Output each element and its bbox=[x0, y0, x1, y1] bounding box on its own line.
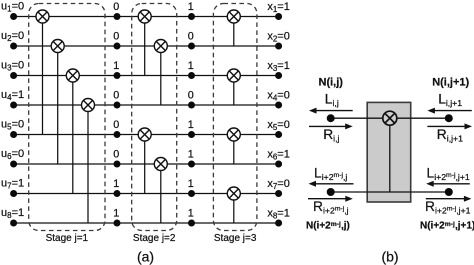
XOR gate stage2 row5 bbox=[138, 128, 151, 141]
wire row 3 bbox=[14, 75, 279, 77]
label N(i,j) bbox=[319, 77, 344, 89]
svg-text:1: 1 bbox=[188, 149, 194, 161]
label N(i+2^m-j,j+1) bbox=[420, 221, 474, 232]
wire top right segment bbox=[397, 117, 449, 119]
label x6=1 bbox=[267, 149, 290, 162]
value label 0 col1 row5 bbox=[113, 119, 119, 131]
node col2 row7 bbox=[188, 190, 195, 197]
node x8 output bbox=[275, 220, 282, 227]
node col1 row7 bbox=[114, 190, 121, 197]
svg-text:u8=1: u8=1 bbox=[1, 207, 24, 220]
node u6 input bbox=[10, 161, 17, 168]
wire row 7 bbox=[14, 193, 279, 195]
svg-text:0: 0 bbox=[188, 90, 194, 102]
wire stage1 XOR row1 to row5 bbox=[42, 23, 44, 135]
node u5 input bbox=[10, 131, 17, 138]
arrow R i+2^m-j,j bbox=[308, 196, 353, 202]
wire row 4 bbox=[14, 104, 279, 106]
wire stage2 XOR row1 to row3 bbox=[144, 23, 146, 76]
wire stage1 XOR row2 to row6 bbox=[57, 53, 59, 165]
caption Stage j=3 bbox=[214, 233, 257, 244]
label x1=1 bbox=[267, 1, 290, 14]
svg-text:N(i,j): N(i,j) bbox=[319, 77, 344, 89]
svg-text:x4=0: x4=0 bbox=[267, 90, 290, 103]
value label 0 col1 row1 bbox=[113, 1, 119, 13]
label u1=0 bbox=[1, 1, 24, 14]
svg-text:1: 1 bbox=[113, 178, 119, 190]
wire row 2 bbox=[14, 45, 279, 47]
value label 1 col2 row8 bbox=[188, 208, 194, 220]
svg-text:u6=0: u6=0 bbox=[1, 148, 24, 161]
XOR gate stage3 row3 bbox=[227, 69, 240, 82]
svg-text:1: 1 bbox=[188, 1, 194, 13]
label L i,j+1 bbox=[438, 91, 462, 108]
value label 1 col1 row3 bbox=[113, 60, 119, 72]
stage 1 dashed boundary bbox=[29, 4, 105, 231]
svg-text:x6=1: x6=1 bbox=[267, 149, 290, 162]
svg-text:u1=0: u1=0 bbox=[1, 1, 24, 14]
label u4=1 bbox=[1, 89, 24, 102]
label R i,j+1 bbox=[437, 127, 463, 144]
node u4 input bbox=[10, 102, 17, 109]
label u5=0 bbox=[1, 119, 24, 132]
svg-text:Li+2m-j,j: Li+2m-j,j bbox=[314, 165, 347, 182]
svg-text:N(i+2m-j,j): N(i+2m-j,j) bbox=[306, 221, 350, 232]
label x2=0 bbox=[267, 31, 290, 44]
wire stage1 XOR row3 to row7 bbox=[72, 82, 74, 194]
node u3 input bbox=[10, 72, 17, 79]
wire stage2 XOR row5 to row7 bbox=[144, 141, 146, 194]
arrow R i+2^m-j,j+1 bbox=[426, 196, 472, 202]
value label 1 col2 row6 bbox=[188, 149, 194, 161]
svg-text:Stage j=2: Stage j=2 bbox=[133, 233, 176, 244]
svg-text:Stage j=1: Stage j=1 bbox=[46, 233, 89, 244]
node N(i+2^m-j,j+1) bbox=[445, 188, 453, 196]
label u2=0 bbox=[1, 30, 24, 43]
node col1 row4 bbox=[114, 102, 121, 109]
wire stage2 XOR row2 to row4 bbox=[160, 53, 162, 106]
XOR gate stage1 row3 bbox=[66, 69, 79, 82]
node u1 input bbox=[10, 13, 17, 20]
svg-text:1: 1 bbox=[113, 208, 119, 220]
processing element box bbox=[367, 102, 411, 202]
XOR gate stage1 row1 bbox=[36, 10, 49, 23]
node col2 row5 bbox=[188, 131, 195, 138]
XOR gate stage3 row7 bbox=[227, 187, 240, 200]
node col2 row8 bbox=[188, 220, 195, 227]
XOR gate stage3 row1 bbox=[227, 10, 240, 23]
svg-text:0: 0 bbox=[113, 119, 119, 131]
svg-text:x2=0: x2=0 bbox=[267, 31, 290, 44]
node col2 row2 bbox=[188, 43, 195, 50]
wire row 6 bbox=[14, 163, 279, 165]
value label 1 col2 row5 bbox=[188, 119, 194, 131]
svg-text:(b): (b) bbox=[381, 249, 398, 265]
arrow R i,j bbox=[309, 123, 353, 129]
node col2 row6 bbox=[188, 161, 195, 168]
value label 0 col2 row4 bbox=[188, 90, 194, 102]
node col1 row6 bbox=[114, 161, 121, 168]
svg-text:0: 0 bbox=[113, 149, 119, 161]
stage 2 dashed boundary bbox=[132, 4, 177, 231]
svg-text:1: 1 bbox=[188, 60, 194, 72]
label x5=0 bbox=[267, 119, 290, 132]
arrow L i,j bbox=[309, 108, 353, 114]
node x2 output bbox=[275, 43, 282, 50]
svg-text:u2=0: u2=0 bbox=[1, 30, 24, 43]
svg-text:0: 0 bbox=[188, 31, 194, 43]
value label 1 col2 row1 bbox=[188, 1, 194, 13]
label L i+2^m-j,j bbox=[314, 165, 347, 182]
svg-text:u7=1: u7=1 bbox=[1, 178, 24, 191]
svg-text:Li+2m-j,j+1: Li+2m-j,j+1 bbox=[427, 165, 470, 182]
label x7=0 bbox=[267, 178, 290, 191]
wire stage3 XOR row1 to row2 bbox=[233, 23, 235, 46]
node x3 output bbox=[275, 72, 282, 79]
node u7 input bbox=[10, 190, 17, 197]
node x4 output bbox=[275, 102, 282, 109]
node col1 row1 bbox=[114, 13, 121, 20]
label u3=0 bbox=[1, 60, 24, 73]
label N(i,j+1) bbox=[432, 77, 469, 89]
node col2 row3 bbox=[188, 72, 195, 79]
node x7 output bbox=[275, 190, 282, 197]
label R i,j bbox=[323, 127, 339, 144]
svg-text:Ri,j+1: Ri,j+1 bbox=[437, 127, 463, 144]
svg-text:Li,j: Li,j bbox=[325, 91, 339, 108]
value label 0 col2 row2 bbox=[188, 31, 194, 43]
svg-text:Ri,j: Ri,j bbox=[323, 127, 339, 144]
node col2 row1 bbox=[188, 13, 195, 20]
XOR gate stage2 row2 bbox=[154, 40, 167, 53]
wire PE XOR to bottom bbox=[389, 125, 391, 192]
svg-text:u3=0: u3=0 bbox=[1, 60, 24, 73]
node u2 input bbox=[10, 43, 17, 50]
wire stage3 XOR row5 to row6 bbox=[233, 141, 235, 164]
svg-text:1: 1 bbox=[113, 60, 119, 72]
node x1 output bbox=[275, 13, 282, 20]
XOR gate stage2 row6 bbox=[154, 158, 167, 171]
svg-text:Stage j=3: Stage j=3 bbox=[214, 233, 257, 244]
wire row 1 bbox=[14, 16, 279, 18]
svg-text:N(i,j+1): N(i,j+1) bbox=[432, 77, 469, 89]
node col1 row3 bbox=[114, 72, 121, 79]
label L i+2^m-j,j+1 bbox=[427, 165, 470, 182]
node u8 input bbox=[10, 220, 17, 227]
svg-text:Ri+2m-j,j: Ri+2m-j,j bbox=[313, 199, 349, 216]
label L i,j bbox=[325, 91, 339, 108]
value label 1 col2 row3 bbox=[188, 60, 194, 72]
node col1 row2 bbox=[114, 43, 121, 50]
XOR gate stage3 row5 bbox=[227, 128, 240, 141]
label u7=1 bbox=[1, 178, 24, 191]
caption (b) bbox=[381, 249, 398, 265]
svg-text:1: 1 bbox=[188, 178, 194, 190]
label x8=1 bbox=[267, 208, 290, 221]
node x6 output bbox=[275, 161, 282, 168]
caption (a) bbox=[137, 249, 154, 265]
wire bottom bbox=[331, 191, 449, 193]
svg-text:0: 0 bbox=[113, 1, 119, 13]
value label 0 col1 row6 bbox=[113, 149, 119, 161]
node N(i,j+1) bbox=[445, 114, 453, 122]
wire stage3 XOR row7 to row8 bbox=[233, 200, 235, 223]
svg-text:1: 1 bbox=[188, 119, 194, 131]
svg-text:x5=0: x5=0 bbox=[267, 119, 290, 132]
label u6=0 bbox=[1, 148, 24, 161]
arrow L i+2^m-j,j+1 bbox=[426, 181, 470, 187]
svg-text:x8=1: x8=1 bbox=[267, 208, 290, 221]
value label 1 col1 row7 bbox=[113, 178, 119, 190]
wire stage3 XOR row3 to row4 bbox=[233, 82, 235, 105]
svg-text:0: 0 bbox=[113, 90, 119, 102]
label x3=1 bbox=[267, 60, 290, 73]
arrow R i,j+1 bbox=[427, 123, 472, 129]
wire row 5 bbox=[14, 134, 279, 136]
caption Stage j=2 bbox=[133, 233, 176, 244]
arrow L i+2^m-j,j bbox=[309, 181, 354, 187]
svg-text:u5=0: u5=0 bbox=[1, 119, 24, 132]
svg-text:Ri+2m-j,j+1: Ri+2m-j,j+1 bbox=[425, 199, 471, 216]
svg-text:x1=1: x1=1 bbox=[267, 1, 290, 14]
svg-text:1: 1 bbox=[188, 208, 194, 220]
value label 0 col1 row4 bbox=[113, 90, 119, 102]
XOR gate stage2 row1 bbox=[138, 10, 151, 23]
value label 0 col1 row2 bbox=[113, 31, 119, 43]
wire top left segment bbox=[331, 117, 383, 119]
label x4=0 bbox=[267, 90, 290, 103]
wire row 8 bbox=[14, 222, 279, 224]
stage 3 dashed boundary bbox=[213, 4, 257, 231]
svg-text:0: 0 bbox=[113, 31, 119, 43]
node col1 row8 bbox=[114, 220, 121, 227]
label N(i+2^m-j,j) bbox=[306, 221, 350, 232]
arrow L i,j+1 bbox=[427, 108, 471, 114]
label R i+2^m-j,j bbox=[313, 199, 349, 216]
node col1 row5 bbox=[114, 131, 121, 138]
node x5 output bbox=[275, 131, 282, 138]
svg-text:x3=1: x3=1 bbox=[267, 60, 290, 73]
label u8=1 bbox=[1, 207, 24, 220]
svg-text:u4=1: u4=1 bbox=[1, 89, 24, 102]
wire stage1 XOR row4 to row8 bbox=[87, 112, 89, 224]
caption Stage j=1 bbox=[46, 233, 89, 244]
svg-text:x7=0: x7=0 bbox=[267, 178, 290, 191]
label R i+2^m-j,j+1 bbox=[425, 199, 471, 216]
svg-text:N(i+2m-j,j+1): N(i+2m-j,j+1) bbox=[420, 221, 474, 232]
wire stage2 XOR row6 to row8 bbox=[160, 171, 162, 224]
node N(i,j) bbox=[327, 114, 335, 122]
XOR gate stage1 row4 bbox=[82, 99, 95, 112]
XOR gate PE bbox=[383, 111, 397, 125]
node N(i+2^m-j,j) bbox=[327, 188, 335, 196]
XOR gate stage1 row2 bbox=[51, 40, 64, 53]
svg-text:(a): (a) bbox=[137, 249, 154, 265]
svg-text:Li,j+1: Li,j+1 bbox=[438, 91, 462, 108]
node col2 row4 bbox=[188, 102, 195, 109]
value label 1 col1 row8 bbox=[113, 208, 119, 220]
value label 1 col2 row7 bbox=[188, 178, 194, 190]
